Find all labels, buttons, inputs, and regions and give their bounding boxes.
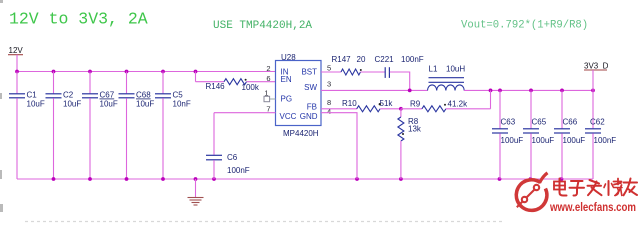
inductor L1 [428,65,466,91]
svg-text:41.2k: 41.2k [448,100,469,109]
svg-text:C68: C68 [136,91,151,100]
capacitor C62 [585,90,616,179]
svg-text:7: 7 [266,104,270,113]
svg-text:Vout=0.792*(1+R9/R8): Vout=0.792*(1+R9/R8) [461,20,588,32]
wire FB line [321,108,357,110]
capacitor C67 [82,72,118,180]
svg-text:5: 5 [327,64,331,73]
pin 1 number [264,89,268,98]
svg-text:FB: FB [307,103,317,112]
node junction dots bottom rail [52,177,564,181]
svg-text:C6: C6 [227,153,238,162]
svg-text:100uF: 100uF [501,136,524,145]
svg-text:R10: R10 [342,99,357,108]
svg-text:C63: C63 [501,118,516,127]
pin 4 number [327,107,331,116]
note USE TMP4420H,2A [213,20,312,32]
edge smudges [0,0,3,212]
op-amp U28 regulator MP4420H [276,53,322,138]
svg-text:100k: 100k [242,83,260,92]
svg-text:SW: SW [304,83,317,92]
svg-text:100nF: 100nF [227,166,250,175]
svg-text:PG: PG [281,95,293,104]
svg-text:C67: C67 [100,91,115,100]
resistor R10 [342,99,401,112]
svg-text:BST: BST [301,67,317,76]
pin 2 number [266,64,270,73]
capacitor C63 [492,90,523,179]
svg-text:10uF: 10uF [136,100,154,109]
elecfans logo text [554,179,637,196]
svg-text:8: 8 [327,98,331,107]
svg-text:51k: 51k [380,99,394,108]
svg-text:12V: 12V [9,46,24,55]
svg-text:C66: C66 [563,118,578,127]
wire top rail [17,71,276,73]
svg-text:C221: C221 [375,55,395,64]
svg-text:100uF: 100uF [563,136,586,145]
svg-text:13k: 13k [408,125,422,134]
svg-text:100nF: 100nF [594,136,617,145]
svg-text:10nF: 10nF [173,100,191,109]
title text [9,9,148,28]
capacitor C6 [206,113,276,179]
svg-text:C2: C2 [63,91,74,100]
svg-text:12V to 3V3, 2A: 12V to 3V3, 2A [9,9,148,28]
svg-text:20: 20 [357,55,366,64]
port 12V [8,46,23,71]
wire output rail [464,89,593,91]
resistor R146 [196,72,276,93]
pin 5 number [327,64,331,73]
pin 1 PG no-connect square [264,96,276,101]
svg-text:R146: R146 [206,82,226,91]
svg-text:L1: L1 [429,65,438,74]
node junction dots output rail [408,89,595,93]
svg-text:10uH: 10uH [446,65,465,74]
pin 3 number [327,80,331,89]
svg-text:3V3_D: 3V3_D [584,62,609,71]
svg-text:VCC: VCC [280,112,297,121]
svg-text:10uF: 10uF [27,100,45,109]
elecfans logo url [549,200,636,214]
svg-text:100nF: 100nF [401,55,424,64]
capacitor C2 [46,72,82,180]
elecfans logo mark [516,173,547,211]
svg-text:EN: EN [281,75,292,84]
pin 8 number [327,98,331,107]
capacitor C221 [361,55,424,78]
formula Vout [461,20,588,32]
svg-text:USE TMP4420H,2A: USE TMP4420H,2A [213,20,312,32]
svg-text:10uF: 10uF [63,100,81,109]
svg-text:4: 4 [327,107,331,116]
svg-text:GND: GND [300,112,318,121]
node junction dots top rail [15,70,197,74]
artifact dashed line [25,221,505,223]
port 3V3_D [584,62,609,91]
svg-text:U28: U28 [281,53,296,62]
svg-text:www.elecfans.com: www.elecfans.com [549,200,636,214]
svg-text:C62: C62 [590,118,605,127]
svg-text:C5: C5 [173,91,184,100]
pin 6 number [266,74,270,83]
wire bottom rail [17,178,593,180]
svg-text:3: 3 [327,80,331,89]
svg-text:R9: R9 [410,100,421,109]
capacitor C1 [9,72,45,180]
resistor R8 [398,109,422,179]
capacitor C65 [523,90,554,179]
ground [188,179,204,205]
svg-text:MP4420H: MP4420H [283,129,319,138]
capacitor C66 [554,90,585,179]
svg-text:2: 2 [266,64,270,73]
svg-text:100uF: 100uF [532,136,555,145]
node FB junction [399,107,403,111]
capacitor C5 [155,72,191,180]
svg-text:R147: R147 [332,55,352,64]
svg-text:10uF: 10uF [100,100,118,109]
svg-text:C65: C65 [532,118,547,127]
resistor R147 [321,55,366,75]
svg-text:C1: C1 [27,91,38,100]
pin 7 number [266,104,270,113]
wire SW line [321,89,428,91]
capacitor C68 [119,72,155,180]
wire C221 to SW node [390,72,410,90]
resistor R9 [401,90,491,111]
svg-text:6: 6 [266,74,270,83]
wire GND pin to bottom rail [321,113,357,179]
